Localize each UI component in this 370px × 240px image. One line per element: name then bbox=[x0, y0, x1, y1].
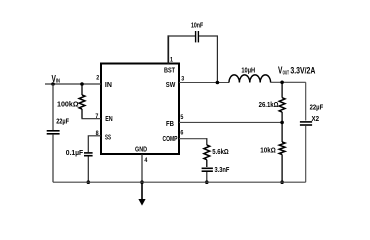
svg-text:10µH: 10µH bbox=[241, 65, 255, 74]
wire SW pin to inductor bbox=[179, 82, 229, 84]
capacitor C3 10nF bootstrap bbox=[196, 31, 199, 42]
capacitor C5 3.3nF compensation bbox=[202, 168, 213, 171]
capacitor C2 0.1uF soft-start bbox=[84, 153, 93, 156]
node junction dot 10k ground bbox=[280, 180, 284, 184]
inductor L1 10uH bbox=[229, 75, 271, 83]
svg-text:EN: EN bbox=[105, 116, 113, 123]
wire VOUT to output cap bbox=[305, 82, 307, 120]
svg-text:BST: BST bbox=[164, 68, 176, 75]
node junction dot comp ground bbox=[205, 180, 209, 184]
wire 100k to EN pin bbox=[82, 118, 102, 120]
node junction dot SW/bootstrap bbox=[216, 81, 220, 85]
node junction dot GND bbox=[140, 180, 144, 184]
svg-text:10kΩ: 10kΩ bbox=[260, 145, 275, 154]
wire VIN input to IN pin bbox=[45, 83, 101, 85]
value 22uF X2 bbox=[310, 103, 324, 123]
svg-text:22µF: 22µF bbox=[310, 103, 324, 112]
svg-text:10nF: 10nF bbox=[191, 21, 203, 30]
wire SS pin to soft-start cap bbox=[88, 136, 101, 152]
resistor R1 100k bbox=[79, 84, 85, 119]
capacitor C1 22uF input bbox=[47, 131, 60, 134]
svg-text:5: 5 bbox=[180, 114, 183, 121]
wire bootstrap cap down to SW node bbox=[199, 36, 217, 83]
ground symbol arrow bbox=[138, 182, 145, 205]
svg-text:IN: IN bbox=[105, 82, 112, 89]
op-amp U1 regulator body bbox=[101, 64, 179, 155]
node junction dot FB bbox=[280, 121, 284, 125]
node junction dot VOUT bbox=[280, 81, 284, 85]
svg-text:COMP: COMP bbox=[163, 136, 178, 143]
wire inductor to VOUT bbox=[271, 81, 306, 83]
svg-text:GND: GND bbox=[135, 146, 147, 153]
svg-text:0.1µF: 0.1µF bbox=[66, 148, 84, 157]
wire ground rail bbox=[53, 181, 306, 183]
svg-text:SS: SS bbox=[105, 134, 111, 141]
wire compensation cap to ground rail bbox=[206, 172, 208, 182]
wire BST pin up and over to bootstrap cap bbox=[167, 35, 169, 64]
wire input cap branch bbox=[52, 84, 54, 130]
svg-text:2: 2 bbox=[96, 75, 99, 82]
node VIN label bbox=[52, 74, 61, 85]
capacitor C4 22uF X2 output bbox=[300, 122, 312, 125]
wire soft-start cap to ground rail bbox=[87, 157, 89, 183]
wire FB pin to divider bbox=[179, 121, 282, 123]
svg-text:SW: SW bbox=[166, 82, 176, 89]
wire output cap to ground rail bbox=[305, 126, 307, 182]
svg-text:1: 1 bbox=[170, 56, 173, 63]
svg-text:FB: FB bbox=[166, 121, 174, 128]
svg-text:X2: X2 bbox=[312, 114, 320, 123]
node junction dot 100k top bbox=[80, 82, 84, 86]
node VOUT label bbox=[278, 65, 316, 76]
resistor R3 10k lower feedback bbox=[279, 122, 285, 182]
resistor R2 26.1k upper feedback bbox=[279, 82, 285, 122]
svg-text:6: 6 bbox=[180, 130, 183, 137]
resistor R4 5.6k compensation bbox=[204, 145, 210, 167]
wire input cap to ground rail bbox=[52, 135, 54, 183]
svg-text:4: 4 bbox=[144, 157, 147, 164]
svg-text:3.3nF: 3.3nF bbox=[215, 165, 230, 174]
svg-text:22µF: 22µF bbox=[56, 116, 69, 125]
node junction dot at VIN bbox=[51, 82, 55, 86]
svg-text:100kΩ: 100kΩ bbox=[57, 99, 79, 108]
svg-text:26.1kΩ: 26.1kΩ bbox=[259, 100, 279, 109]
svg-text:OUT: OUT bbox=[283, 70, 290, 76]
svg-text:3: 3 bbox=[181, 75, 184, 82]
wire GND pin down bbox=[141, 154, 143, 182]
wire COMP pin to compensation network bbox=[179, 139, 207, 145]
node junction dot SS ground bbox=[87, 180, 91, 184]
svg-text:3.3V/2A: 3.3V/2A bbox=[290, 65, 315, 76]
svg-text:5.6kΩ: 5.6kΩ bbox=[212, 147, 228, 156]
